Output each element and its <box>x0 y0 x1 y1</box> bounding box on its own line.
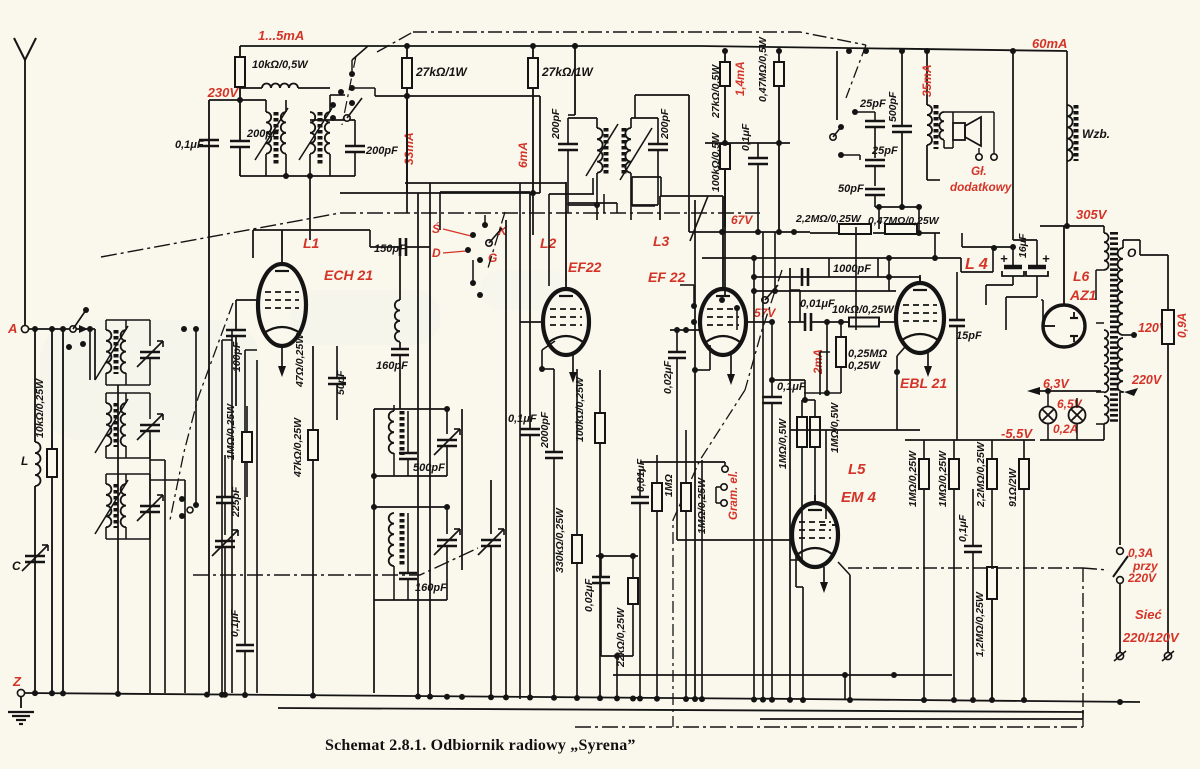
svg-text:+: + <box>1000 251 1008 266</box>
svg-text:+: + <box>1042 251 1050 266</box>
svg-text:-5,5V: -5,5V <box>1001 426 1033 441</box>
svg-text:200pF: 200pF <box>365 145 398 157</box>
svg-text:1MΩ/0,5W: 1MΩ/0,5W <box>777 418 789 469</box>
svg-text:L6: L6 <box>1073 268 1090 284</box>
svg-text:15pF: 15pF <box>956 330 982 342</box>
svg-text:0,9A: 0,9A <box>1175 313 1189 338</box>
svg-text:0,01μF: 0,01μF <box>800 298 835 310</box>
svg-text:Ś: Ś <box>432 221 440 236</box>
svg-text:200pF: 200pF <box>659 108 671 140</box>
svg-text:O: O <box>1127 246 1137 260</box>
svg-text:D: D <box>432 246 441 260</box>
svg-text:10kΩ/0,25W: 10kΩ/0,25W <box>832 304 895 316</box>
svg-text:220V: 220V <box>1127 571 1157 585</box>
svg-text:Schemat 2.8.1. Odbiornik radio: Schemat 2.8.1. Odbiornik radiowy „Syrena… <box>325 737 636 754</box>
svg-text:1...5mA: 1...5mA <box>258 28 304 43</box>
svg-text:10kΩ/0,5W: 10kΩ/0,5W <box>252 59 309 71</box>
svg-text:EM 4: EM 4 <box>841 489 877 506</box>
svg-text:0,25MΩ: 0,25MΩ <box>848 348 888 360</box>
svg-text:47Ω/0,25W: 47Ω/0,25W <box>294 333 306 388</box>
svg-text:2,2MΩ/0,25W: 2,2MΩ/0,25W <box>795 213 862 225</box>
svg-text:160pF: 160pF <box>376 360 408 372</box>
svg-text:200pF: 200pF <box>550 108 562 140</box>
svg-text:0,1μF: 0,1μF <box>740 123 752 151</box>
svg-text:100pF: 100pF <box>231 341 243 372</box>
svg-text:0,1μF: 0,1μF <box>508 413 537 425</box>
svg-text:27kΩ/1W: 27kΩ/1W <box>541 65 594 79</box>
svg-text:1,4mA: 1,4mA <box>735 61 747 96</box>
svg-text:1,2MΩ/0,25W: 1,2MΩ/0,25W <box>974 591 986 657</box>
svg-text:2,2MΩ/0,25W: 2,2MΩ/0,25W <box>975 441 987 508</box>
svg-text:AZ1: AZ1 <box>1069 287 1097 303</box>
svg-text:dodatkowy: dodatkowy <box>950 181 1013 194</box>
svg-text:1000pF: 1000pF <box>833 263 871 275</box>
svg-text:EF22: EF22 <box>568 259 602 275</box>
svg-text:0,47MΩ/0,5W: 0,47MΩ/0,5W <box>757 36 769 102</box>
svg-text:A: A <box>7 321 17 336</box>
svg-text:16μF: 16μF <box>1017 233 1029 258</box>
svg-text:0,1μF: 0,1μF <box>229 609 241 637</box>
svg-text:0,01μF: 0,01μF <box>635 458 647 492</box>
svg-text:1MΩ/0,25W: 1MΩ/0,25W <box>907 450 919 507</box>
svg-text:L1: L1 <box>303 235 320 251</box>
svg-text:35mA: 35mA <box>920 64 934 97</box>
svg-text:Gł.: Gł. <box>971 165 987 178</box>
svg-text:100kΩ/0,25W: 100kΩ/0,25W <box>574 376 586 442</box>
svg-text:EF 22: EF 22 <box>648 269 686 285</box>
svg-text:60mA: 60mA <box>1032 36 1067 51</box>
svg-text:305V: 305V <box>1076 207 1108 222</box>
svg-text:1MΩ/0,25W: 1MΩ/0,25W <box>225 403 237 460</box>
svg-text:L3: L3 <box>653 233 670 249</box>
svg-text:100kΩ/0,5W: 100kΩ/0,5W <box>710 132 722 192</box>
svg-text:1MΩ/0,25W: 1MΩ/0,25W <box>937 450 949 507</box>
svg-text:220/120V: 220/120V <box>1122 630 1180 645</box>
svg-text:0,1μF: 0,1μF <box>957 514 969 542</box>
svg-text:0,3A: 0,3A <box>1128 546 1153 560</box>
svg-text:1MΩ: 1MΩ <box>663 474 675 497</box>
svg-text:Z: Z <box>12 674 22 689</box>
svg-text:10kΩ/0,25W: 10kΩ/0,25W <box>34 378 46 438</box>
svg-text:2mA: 2mA <box>813 349 825 375</box>
svg-text:Sieć: Sieć <box>1135 607 1163 622</box>
svg-text:2000pF: 2000pF <box>539 411 551 449</box>
svg-text:27kΩ/1W: 27kΩ/1W <box>415 65 468 79</box>
svg-text:25pF: 25pF <box>871 145 898 157</box>
svg-text:Gram. el.: Gram. el. <box>728 471 740 520</box>
svg-text:50pF: 50pF <box>838 183 864 195</box>
svg-text:67V: 67V <box>731 213 753 227</box>
svg-text:L 4: L 4 <box>965 256 988 273</box>
svg-text:47kΩ/0,25W: 47kΩ/0,25W <box>292 417 304 478</box>
svg-text:Wzb.: Wzb. <box>1082 127 1110 141</box>
svg-text:91Ω/2W: 91Ω/2W <box>1007 467 1019 507</box>
svg-text:6,5V: 6,5V <box>1057 397 1083 411</box>
svg-text:C: C <box>12 559 21 573</box>
svg-text:0,02μF: 0,02μF <box>662 360 674 394</box>
svg-text:500pF: 500pF <box>413 462 445 474</box>
svg-text:0,25W: 0,25W <box>848 360 881 372</box>
svg-text:1MΩ/0,5W: 1MΩ/0,5W <box>829 402 841 453</box>
svg-text:L: L <box>21 454 28 468</box>
svg-text:330kΩ/0,25W: 330kΩ/0,25W <box>554 507 566 573</box>
svg-text:220V: 220V <box>1131 373 1163 387</box>
svg-text:230V: 230V <box>207 85 240 100</box>
svg-text:0,47MΩ/0,25W: 0,47MΩ/0,25W <box>868 215 940 227</box>
svg-text:27kΩ/0,5W: 27kΩ/0,5W <box>710 64 722 119</box>
svg-text:L5: L5 <box>848 461 866 478</box>
svg-text:500pF: 500pF <box>887 91 899 122</box>
svg-text:25pF: 25pF <box>859 98 886 110</box>
svg-text:0,1μF: 0,1μF <box>175 139 204 151</box>
svg-text:6mA: 6mA <box>516 142 530 168</box>
svg-text:0,2A: 0,2A <box>1053 422 1078 436</box>
svg-text:ECH 21: ECH 21 <box>324 267 373 283</box>
svg-text:33mA: 33mA <box>402 132 416 165</box>
svg-text:160pF: 160pF <box>415 582 447 594</box>
svg-text:0,1μF: 0,1μF <box>777 381 806 393</box>
svg-text:57V: 57V <box>754 306 776 320</box>
svg-text:EBL 21: EBL 21 <box>900 375 947 391</box>
